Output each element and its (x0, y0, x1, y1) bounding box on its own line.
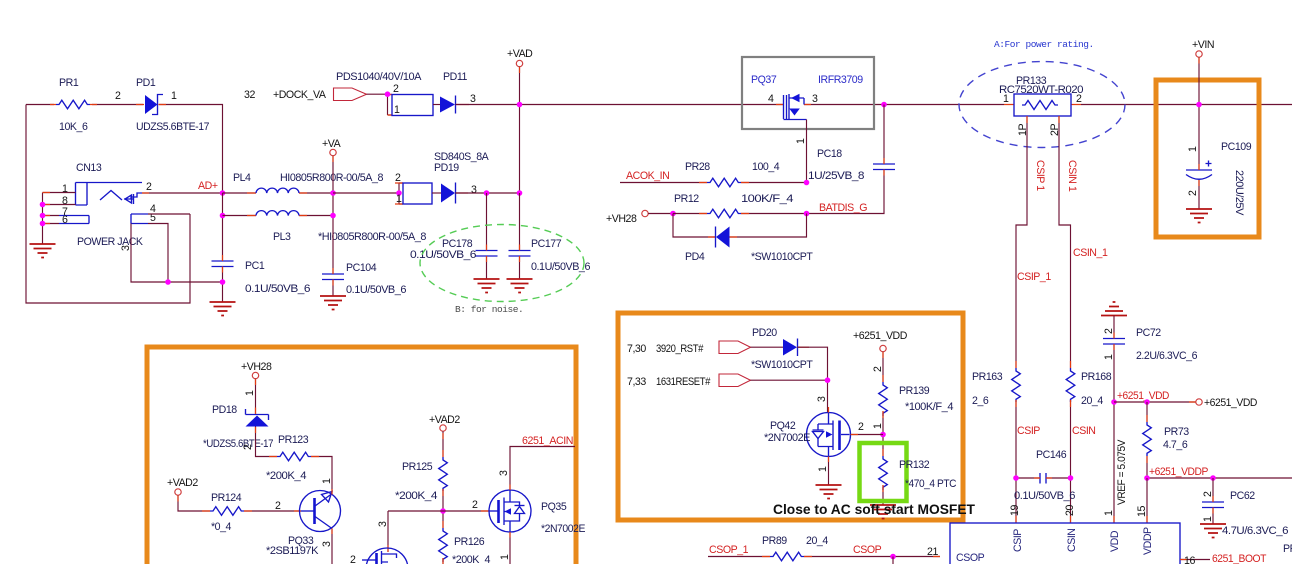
wire AD+ column (222, 193, 224, 302)
off-page connector +DOCK_VA (334, 88, 367, 101)
svg-text:ACOK_IN: ACOK_IN (626, 170, 669, 182)
ground above PC72 (flipped) (1101, 302, 1127, 316)
wire jack pin2 to AD+ (142, 192, 223, 194)
svg-text:PC146: PC146 (1036, 449, 1067, 461)
pin stub VDDP into IC (1146, 478, 1148, 523)
diode PD11 (392, 71, 476, 116)
power +6251_VDD (box) (853, 330, 908, 505)
svg-text:2: 2 (395, 172, 401, 184)
capacitor PC109 (polarized) (1186, 141, 1252, 216)
svg-text:4.7U/6.3VC_6: 4.7U/6.3VC_6 (1222, 525, 1289, 537)
junction +VIN/rail (1196, 102, 1202, 108)
inductor PL3 (223, 211, 427, 243)
svg-text:220U/25V: 220U/25V (1233, 170, 1245, 216)
resistor PR133 (current sense) (999, 75, 1084, 136)
resistor PR132 (879, 456, 957, 490)
svg-text:CSOP: CSOP (956, 552, 985, 564)
svg-text:POWER JACK: POWER JACK (77, 236, 143, 248)
svg-text:2: 2 (350, 554, 356, 564)
svg-text:+VAD2: +VAD2 (429, 414, 460, 426)
svg-text:4: 4 (768, 93, 774, 105)
capacitor PC18 (807, 105, 895, 214)
svg-text:1: 1 (321, 478, 333, 484)
wire top row PR1-PD1 (26, 105, 223, 194)
svg-text:BATDIS_G: BATDIS_G (819, 202, 867, 214)
svg-text:1: 1 (1103, 510, 1115, 516)
svg-text:0.1U/50VB_6: 0.1U/50VB_6 (410, 249, 477, 261)
svg-text:Close to AC soft start MOSFET: Close to AC soft start MOSFET (773, 502, 976, 517)
svg-text:2: 2 (393, 83, 399, 95)
svg-text:PR125: PR125 (402, 461, 433, 473)
svg-text:*2SB1197K: *2SB1197K (266, 545, 318, 557)
svg-text:CSIN: CSIN (1066, 528, 1078, 552)
svg-text:PD11: PD11 (443, 71, 467, 83)
svg-text:PR1: PR1 (1283, 543, 1292, 555)
resistor PR124 (210, 492, 244, 533)
inductor PL4 (223, 172, 384, 193)
svg-text:1: 1 (817, 466, 829, 472)
junction pin5/pin3 row (165, 279, 171, 285)
IC box (bottom) (950, 523, 1180, 564)
svg-text:2: 2 (1202, 491, 1214, 497)
pin stubs vertical resistors/caps/transistors (178, 58, 1213, 564)
wire PQ42 source (828, 457, 830, 486)
ground PC62 (1200, 524, 1226, 538)
svg-text:20_4: 20_4 (1081, 395, 1103, 407)
junction PQ42 drain/PR139/PR132 (880, 432, 886, 438)
diode PD4 (685, 227, 813, 264)
svg-text:PD19: PD19 (434, 162, 459, 174)
transistor PQ35 (N-MOSFET 2N7002E) (489, 490, 585, 535)
svg-text:PC104: PC104 (346, 262, 377, 274)
svg-text:CSIP: CSIP (1017, 425, 1040, 437)
ground PC104 (320, 296, 346, 310)
svg-text:PD1: PD1 (136, 77, 156, 89)
svg-text:1: 1 (795, 138, 807, 144)
wire jack left bus (43, 193, 76, 245)
svg-text:PR163: PR163 (972, 371, 1003, 383)
power +VAD2 (mid) (429, 414, 460, 564)
svg-text:100K/F_4: 100K/F_4 (741, 193, 794, 205)
gray box PQ37 (742, 57, 874, 129)
power +VH28 (box) (241, 361, 272, 414)
svg-text:1: 1 (171, 90, 177, 102)
orange box PC109 (1156, 80, 1259, 237)
svg-text:CSOP_1: CSOP_1 (709, 544, 749, 556)
wire ACOK_IN row (620, 182, 807, 184)
wire PR12 row (673, 213, 807, 215)
wire main top rail (456, 104, 1292, 106)
svg-text:CSIN: CSIN (1072, 425, 1096, 437)
svg-text:PR132: PR132 (899, 459, 930, 471)
svg-text:PC1: PC1 (245, 260, 265, 272)
svg-text:*UDZS5.6BTE-17: *UDZS5.6BTE-17 (203, 438, 273, 450)
ground jack bus (30, 244, 56, 258)
svg-text:PD20: PD20 (752, 327, 777, 339)
svg-text:0.1U/50VB_6: 0.1U/50VB_6 (245, 283, 311, 295)
junction PR125/PQ35 gate (440, 508, 446, 514)
svg-text:+VA: +VA (322, 138, 342, 150)
svg-text:CSIP: CSIP (1012, 529, 1024, 552)
resistor PR89 (762, 535, 828, 561)
capacitor PC178 (410, 193, 498, 279)
svg-text:*0_4: *0_4 (211, 521, 232, 533)
power +VH28 (PD4 row) (606, 210, 673, 225)
resistor PR139 (872, 366, 954, 429)
svg-text:PR126: PR126 (454, 536, 485, 548)
svg-text:1: 1 (244, 390, 256, 396)
svg-text:6251_BOOT: 6251_BOOT (1212, 553, 1267, 564)
svg-text:*HI0805R800R-00/5A_8: *HI0805R800R-00/5A_8 (318, 231, 427, 243)
junction +VAD/rail (517, 102, 523, 108)
svg-text:PL4: PL4 (233, 172, 251, 184)
svg-text:CSIP 1: CSIP 1 (1034, 160, 1046, 191)
svg-text:3: 3 (812, 93, 818, 105)
svg-text:3: 3 (321, 541, 333, 547)
wire PL4 node to PD19 (333, 183, 403, 204)
svg-text:VDD: VDD (1109, 530, 1121, 552)
svg-text:0.1U/50VB_6: 0.1U/50VB_6 (346, 284, 407, 296)
ground PC109 (1186, 209, 1212, 223)
wire jack pin3 (131, 224, 223, 283)
svg-text:1631RESET#: 1631RESET# (656, 376, 710, 388)
ground PQ42 (816, 485, 842, 499)
svg-text:B: for noise.: B: for noise. (455, 304, 523, 315)
svg-text:20: 20 (1064, 505, 1076, 516)
svg-text:+VH28: +VH28 (241, 361, 272, 373)
svg-text:3920_RST#: 3920_RST# (656, 343, 703, 355)
svg-text:3: 3 (471, 184, 477, 196)
wire +6251_VDDP row (1147, 477, 1292, 479)
svg-text:PQ42: PQ42 (770, 420, 796, 432)
wire CSIN column from PR133 (1059, 116, 1071, 523)
zener diode PD1 (136, 77, 210, 133)
svg-text:+DOCK_VA: +DOCK_VA (273, 89, 327, 101)
resistor PR126 (439, 528, 491, 564)
svg-text:1: 1 (62, 183, 68, 195)
svg-text:+VAD: +VAD (507, 48, 533, 60)
svg-text:HI0805R800R-00/5A_8: HI0805R800R-00/5A_8 (280, 172, 384, 184)
svg-text:2.2U/6.3VC_6: 2.2U/6.3VC_6 (1136, 350, 1198, 362)
svg-text:CSIP_1: CSIP_1 (1017, 271, 1051, 283)
svg-text:+VH28: +VH28 (606, 213, 637, 225)
resistor PR168 (1066, 368, 1111, 407)
svg-text:2_6: 2_6 (972, 395, 989, 407)
svg-text:PC109: PC109 (1221, 141, 1252, 153)
resistor PR123 (266, 434, 311, 482)
svg-text:2: 2 (275, 500, 281, 512)
svg-text:PR168: PR168 (1081, 371, 1112, 383)
svg-text:2: 2 (1187, 190, 1199, 196)
svg-text:PD18: PD18 (212, 404, 237, 416)
svg-text:+6251_VDD: +6251_VDD (853, 330, 908, 342)
pin stubs PR1/PD1 (50, 104, 166, 106)
junction rail right of PQ37 (881, 102, 887, 108)
svg-text:UDZS5.6BTE-17: UDZS5.6BTE-17 (136, 121, 210, 133)
svg-text:PR89: PR89 (762, 535, 787, 547)
svg-text:+VIN: +VIN (1192, 39, 1214, 51)
svg-text:1: 1 (394, 104, 400, 116)
wire RESET row (751, 379, 828, 381)
svg-text:2: 2 (242, 444, 254, 450)
svg-text:VREF = 5.075V: VREF = 5.075V (1116, 439, 1128, 505)
svg-text:2: 2 (872, 366, 884, 372)
svg-text:*200K_4: *200K_4 (266, 470, 307, 482)
svg-text:CN13: CN13 (76, 162, 102, 174)
resistor PR125 (395, 457, 447, 502)
transistor PQ42 (N-MOSFET 2N7002E) (764, 413, 851, 457)
orange box lower-left (147, 347, 576, 564)
annotation ellipse B (green dashed) (420, 225, 584, 302)
capacitor PC72 (1103, 316, 1198, 524)
svg-text:+6251_VDDP: +6251_VDDP (1149, 466, 1208, 478)
svg-text:PC72: PC72 (1136, 327, 1161, 339)
svg-text:2: 2 (1103, 328, 1115, 334)
svg-text:PC62: PC62 (1230, 490, 1255, 502)
power terminal +6251_VDD (1196, 399, 1202, 405)
svg-text:PR123: PR123 (278, 434, 309, 446)
wire PD4 loop (673, 214, 807, 238)
pin stubs into IC CSIP/CSIN (1016, 516, 1071, 523)
off-page connector 3920_RST# (719, 341, 751, 354)
svg-text:PC177: PC177 (531, 238, 562, 250)
svg-text:3: 3 (470, 93, 476, 105)
diode PD19 (395, 151, 490, 205)
pin number 16 / net 6251_BOOT (1180, 553, 1267, 564)
junction +VA/PL4 (330, 190, 336, 196)
svg-text:7,33: 7,33 (627, 376, 646, 388)
wire +6251_VDD row (1114, 401, 1196, 403)
power +VA (322, 138, 342, 296)
svg-text:+VAD2: +VAD2 (167, 477, 198, 489)
svg-text:19: 19 (1009, 505, 1021, 516)
power +VIN (1192, 39, 1214, 170)
ground PC178 (474, 279, 500, 293)
svg-text:PR73: PR73 (1164, 426, 1189, 438)
resistor PR1 (56, 77, 90, 133)
resistor PR163 (972, 368, 1020, 407)
svg-text:PD4: PD4 (685, 251, 705, 263)
svg-text:0.1U/50VB_6: 0.1U/50VB_6 (531, 261, 591, 273)
pin stubs jack left (43, 193, 51, 224)
wire gate row to PQ34/PQ35 (388, 511, 489, 552)
svg-text:CSIN 1: CSIN 1 (1066, 160, 1078, 192)
transistor PQ33 (PNP 2SB1197K) (266, 491, 341, 558)
svg-text:PR12: PR12 (674, 193, 699, 205)
svg-text:*2N7002E: *2N7002E (541, 523, 585, 535)
svg-text:1: 1 (1202, 516, 1214, 522)
svg-text:2: 2 (115, 90, 121, 102)
resistor PR12 (674, 193, 794, 218)
svg-text:7,30: 7,30 (627, 343, 646, 355)
wire PQ42 gate lead (851, 434, 884, 436)
wire outer loop left/bottom (26, 105, 190, 304)
resistor PR28 (685, 161, 780, 187)
wire dock to PD11 (367, 94, 393, 115)
diode PD20 (751, 327, 814, 371)
junction +VA/PL3 (330, 213, 336, 219)
svg-text:VDDP: VDDP (1142, 527, 1154, 555)
svg-text:4.7_6: 4.7_6 (1163, 439, 1188, 451)
svg-text:PR28: PR28 (685, 161, 710, 173)
svg-text:2: 2 (146, 181, 152, 193)
svg-text:2: 2 (1076, 93, 1082, 105)
svg-text:2: 2 (858, 421, 864, 433)
svg-text:0.1U/50VB_6: 0.1U/50VB_6 (1014, 490, 1076, 502)
orange box middle (618, 313, 963, 520)
svg-text:PR1: PR1 (59, 77, 79, 89)
svg-text:PR124: PR124 (211, 492, 242, 504)
svg-text:3: 3 (816, 396, 828, 402)
junction dots jack bus (40, 202, 46, 208)
svg-text:*200K_4: *200K_4 (452, 554, 491, 564)
wire PD19 output (456, 192, 520, 194)
svg-text:1: 1 (499, 554, 511, 560)
svg-text:PR139: PR139 (899, 385, 930, 397)
svg-text:32: 32 (244, 89, 255, 101)
zener diode PD18 (203, 404, 273, 450)
wire CSIP column from PR133 (1016, 116, 1027, 523)
svg-text:1: 1 (872, 423, 884, 429)
wire PD20 to PQ42 gate column (798, 347, 828, 413)
wire PD18 to PR123 (256, 427, 333, 495)
svg-text:PQ35: PQ35 (541, 501, 567, 513)
junction +6251_VDD on VDD wire (1111, 399, 1117, 405)
svg-text:1: 1 (396, 193, 402, 205)
svg-text:*100K/F_4: *100K/F_4 (905, 401, 954, 413)
svg-text:*SW1010CPT: *SW1010CPT (751, 251, 813, 263)
ground PC177 (507, 279, 533, 293)
wire PQ33 collector (331, 529, 333, 564)
svg-text:CSIN_1: CSIN_1 (1073, 247, 1108, 259)
junction ACOK/PQ37 gate (804, 180, 810, 186)
svg-text:3: 3 (498, 470, 510, 476)
svg-text:IRFR3709: IRFR3709 (818, 74, 863, 86)
wire PQ35 drain / 6251_ACIN (510, 447, 575, 491)
svg-text:PC18: PC18 (817, 148, 842, 160)
connector CN13 power jack (59, 162, 156, 251)
svg-text:15: 15 (1136, 506, 1148, 517)
wire jack pin5 (148, 224, 168, 283)
svg-text:1U/25VB_8: 1U/25VB_8 (808, 170, 865, 182)
svg-text:+6251_VDD: +6251_VDD (1204, 397, 1258, 409)
svg-text:16: 16 (1184, 555, 1195, 564)
svg-text:PQ37: PQ37 (751, 74, 777, 86)
svg-text:CSOP: CSOP (853, 544, 882, 556)
svg-text:3: 3 (120, 245, 132, 251)
svg-text:*2N7002E: *2N7002E (764, 432, 810, 444)
resistor PR73 (1143, 402, 1190, 478)
capacitor PC62 (1202, 478, 1289, 537)
svg-text:*470_4 PTC: *470_4 PTC (905, 478, 957, 490)
capacitor PC104 (322, 262, 407, 296)
green box PR132 (860, 443, 907, 501)
svg-text:6251_ACIN: 6251_ACIN (522, 435, 573, 447)
power +VAD (507, 48, 533, 193)
svg-text:10K_6: 10K_6 (59, 121, 88, 133)
svg-text:PL3: PL3 (273, 231, 291, 243)
power +VAD2 (left) (167, 477, 301, 511)
capacitor PC177 (509, 193, 591, 279)
svg-text:6: 6 (62, 214, 68, 226)
junction BATDIS_G (804, 211, 810, 217)
svg-text:100_4: 100_4 (752, 161, 780, 173)
svg-text:AD+: AD+ (198, 180, 218, 192)
ground PC1 (210, 302, 236, 316)
svg-text:1: 1 (1187, 146, 1199, 152)
svg-text:3: 3 (377, 521, 389, 527)
wire CSOP row (708, 556, 940, 558)
junction PR12/PD4 (670, 211, 676, 217)
svg-text:21: 21 (927, 546, 938, 558)
svg-text:+6251_VDD: +6251_VDD (1117, 390, 1170, 402)
capacitor PC146 (1014, 449, 1076, 502)
capacitor PC1 (212, 260, 311, 295)
svg-text:PDS1040/40V/10A: PDS1040/40V/10A (336, 71, 422, 83)
svg-text:*SW1010CPT: *SW1010CPT (751, 359, 813, 371)
off-page connector 1631RESET# (719, 374, 751, 387)
svg-text:2: 2 (472, 499, 478, 511)
svg-text:20_4: 20_4 (806, 535, 828, 547)
transistor Q PQ37 (P-MOSFET) (751, 74, 863, 183)
ground PR132 (870, 505, 896, 519)
svg-text:A:For power rating.: A:For power rating. (994, 39, 1094, 50)
wire jack pin4 (148, 213, 190, 215)
wire PQ35 source (509, 532, 511, 564)
svg-text:1: 1 (1103, 354, 1115, 360)
annotation ellipse A (blue dashed) (959, 62, 1125, 148)
svg-text:1: 1 (1003, 93, 1009, 105)
svg-text:*200K_4: *200K_4 (395, 490, 438, 502)
transistor PQ34 (N-MOSFET, clipped) (362, 548, 408, 564)
junction CSOP (890, 554, 896, 560)
